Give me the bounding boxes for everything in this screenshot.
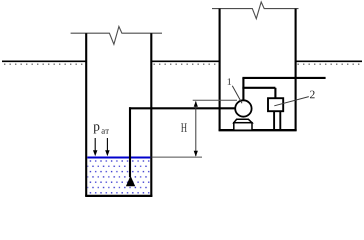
- left tank bottom: [85, 195, 152, 197]
- H dimension top extension line (pump axis level): [193, 99, 237, 101]
- right pit left wall: [219, 9, 221, 131]
- right pit right wall: [295, 9, 297, 131]
- leader line from label 1 to pump: [232, 86, 242, 103]
- component 2 left leg: [273, 111, 275, 129]
- pump pedestal rect: [234, 123, 252, 131]
- discharge pipe horizontal: [242, 77, 325, 79]
- right pit bottom: [219, 129, 297, 131]
- suction riser pipe: [129, 107, 131, 177]
- component 2 body rect: [268, 98, 283, 111]
- H dimension vertical line: [195, 102, 197, 157]
- water surface line: [87, 157, 150, 159]
- label 1: [228, 78, 231, 84]
- H dimension bottom extension line (water level): [152, 156, 203, 158]
- ground hatch right: [298, 63, 362, 65]
- p_at arrow left: [94, 138, 96, 152]
- water body stipple: [87, 159, 150, 195]
- left tank left wall: [85, 33, 87, 196]
- foot valve (filled triangle): [126, 176, 135, 187]
- ground hatch middle: [154, 63, 220, 65]
- pump U1 circle: [235, 100, 251, 116]
- ground surface line left segment: [2, 60, 86, 62]
- ground surface line right segment: [296, 60, 363, 62]
- label p_at: [93, 124, 109, 133]
- ground hatch left: [4, 63, 85, 65]
- left tank right wall: [150, 33, 152, 196]
- ground surface line middle segment: [152, 60, 220, 62]
- label H: [181, 123, 187, 132]
- branch pipe horizontal to component 2: [242, 87, 275, 89]
- pump base trapezoid: [234, 119, 252, 122]
- H dimension top arrow: [194, 101, 198, 107]
- left tank top edge with break symbol: [71, 27, 162, 45]
- suction pipe horizontal: [129, 107, 236, 109]
- branch pipe vertical down to component 2: [274, 88, 276, 99]
- H dimension bottom arrow: [194, 151, 198, 157]
- right pit top edge with break symbol: [212, 2, 299, 19]
- discharge pipe vertical from pump: [242, 78, 244, 101]
- leader line from label 2 to component 2: [274, 97, 309, 106]
- component 2 right leg: [279, 111, 281, 129]
- label 2: [310, 91, 315, 99]
- p_at arrow right: [106, 138, 108, 152]
